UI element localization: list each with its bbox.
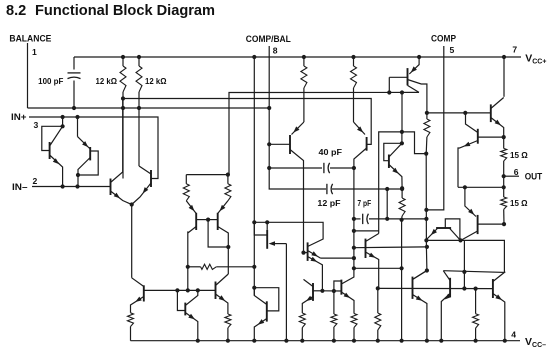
- wire base bus y288.5: [378, 287, 493, 289]
- transistor Q7 pnp left: [292, 122, 304, 135]
- wire x354 to x378 link: [354, 230, 379, 232]
- wire IN+ lead: [29, 117, 158, 179]
- wire de-emitter link y258: [321, 257, 354, 259]
- transistor Q8 pnp right: [354, 122, 366, 135]
- resistor R13: [299, 313, 305, 328]
- transistor Q17 tail source: [132, 278, 144, 287]
- wire driver base bus y290.4: [144, 289, 216, 291]
- svg-text:4: 4: [511, 330, 516, 340]
- wire Q4 collector column: [138, 108, 140, 166]
- resistor R10: [401, 188, 403, 198]
- transistor Q15 sideways pnp: [266, 230, 268, 249]
- capacitor C1 100 pF: [68, 72, 81, 74]
- svg-text:COMP: COMP: [431, 34, 456, 44]
- svg-text:VCC+: VCC+: [525, 52, 546, 65]
- resistor R14: [333, 291, 335, 314]
- svg-text:12 kΩ: 12 kΩ: [96, 77, 118, 86]
- wire spare resistor line: [188, 266, 201, 268]
- wire out mid link y187.3: [458, 186, 504, 188]
- wire bottom VCC- rail: [131, 340, 521, 342]
- capacitor C 7 pF: [362, 214, 364, 224]
- transistor Q24 sink left: [412, 277, 414, 299]
- wire base bus y112.9: [427, 112, 491, 114]
- capacitor C 12 pF: [326, 184, 328, 194]
- wire 7pF line: [354, 218, 361, 220]
- resistor 15 ohm lower: [501, 197, 507, 209]
- svg-text:5: 5: [450, 45, 455, 55]
- svg-text:12 kΩ: 12 kΩ: [145, 77, 167, 86]
- resistor R12: [225, 314, 231, 328]
- resistor R9: [426, 113, 428, 119]
- wire comp node column: [413, 154, 427, 280]
- wire bias tap y222: [254, 222, 323, 246]
- svg-text:8.2: 8.2: [6, 3, 26, 19]
- wire 40pF line: [269, 167, 322, 169]
- wire out pin 6: [504, 175, 519, 177]
- wire bias drop x254: [253, 57, 255, 296]
- resistor R15: [351, 314, 357, 328]
- wire 2nd stage loop: [379, 132, 427, 234]
- wire current limit net y240.4: [426, 240, 504, 272]
- transistor Q11 npn out top: [490, 104, 492, 122]
- transistor Q10 diode: [401, 132, 403, 143]
- wire mirror top: [186, 174, 229, 176]
- svg-text:8: 8: [273, 45, 278, 55]
- wire 12pF to 7pF drop: [386, 189, 388, 219]
- wire VCC+ pin7 drop: [503, 57, 505, 97]
- resistor R6 mirror right: [227, 175, 229, 184]
- wire node bus y98.5: [123, 99, 371, 145]
- wire 12pF line: [332, 188, 402, 190]
- transistor Q4 input: [150, 170, 152, 187]
- resistor R11: [128, 313, 134, 327]
- svg-text:IN+: IN+: [11, 112, 27, 122]
- transistor Q3 input: [110, 179, 112, 196]
- svg-text:12 pF: 12 pF: [317, 199, 340, 208]
- svg-text:2: 2: [33, 176, 38, 186]
- wire q9 c1 node drop: [401, 93, 403, 132]
- wire mirror out column: [187, 231, 189, 290]
- svg-text:VCC–: VCC–: [525, 336, 546, 349]
- junction dots: [121, 55, 125, 59]
- wire x354 column: [353, 168, 355, 268]
- svg-text:6: 6: [514, 167, 519, 177]
- wire COMP/BAL pin 8 lead: [269, 46, 326, 189]
- transistor Q1 clamp: [62, 117, 64, 126]
- transistor Q13 current limit: [436, 227, 451, 229]
- transistor Q23 2nd stage: [365, 239, 367, 258]
- wire out column: [503, 137, 505, 148]
- resistor horizontal bias: [201, 264, 217, 269]
- svg-text:OUT: OUT: [525, 172, 543, 182]
- resistor R8: [353, 57, 355, 66]
- wire balance bus y108: [28, 107, 270, 109]
- wire x401 column: [401, 220, 403, 341]
- wire BALANCE pin 1 lead: [27, 43, 29, 108]
- wire input tail: [131, 205, 133, 278]
- transistor Q16 dual emitter: [307, 242, 309, 261]
- wire top VCC+ rail: [74, 56, 521, 58]
- resistor R5 mirror left: [185, 175, 187, 184]
- transistor Q22 mid diode: [334, 281, 342, 291]
- wire Td base bus y247.3: [354, 246, 427, 249]
- wire output base branch: [463, 240, 465, 288]
- transistor Q12 npn: [478, 136, 504, 138]
- resistor 15 ohm upper: [501, 148, 507, 161]
- wire 40pF base tap: [269, 143, 290, 145]
- wire output collector link: [443, 271, 504, 282]
- svg-text:3: 3: [34, 120, 39, 130]
- resistor R2 12k right: [138, 57, 140, 66]
- svg-text:15 Ω: 15 Ω: [510, 199, 528, 208]
- svg-text:40 pF: 40 pF: [319, 148, 343, 157]
- transistor Q19 source: [215, 282, 217, 300]
- transistor Q5 mirror left: [186, 201, 196, 214]
- transistor Q25 sink right: [449, 278, 451, 298]
- wire sideways pnp collector: [266, 222, 268, 230]
- wire mirror base tie: [208, 220, 228, 247]
- wire mid base link: [322, 290, 341, 292]
- wire COMP pin 5 lead: [426, 46, 443, 210]
- svg-text:7: 7: [512, 45, 517, 55]
- transistor Q20 diode bias: [254, 288, 266, 305]
- wire IN- lead: [32, 186, 111, 188]
- transistor Q2 clamp: [77, 117, 79, 137]
- svg-text:15 Ω: 15 Ω: [510, 151, 528, 160]
- svg-text:IN–: IN–: [12, 182, 28, 192]
- resistor R7: [303, 57, 305, 66]
- capacitor C1 100 pF lead: [73, 57, 75, 70]
- svg-text:COMP/BAL: COMP/BAL: [246, 34, 291, 44]
- svg-text:Functional Block Diagram: Functional Block Diagram: [35, 3, 215, 19]
- resistor R1 12k left: [122, 57, 124, 66]
- transistor Q21 mid source left: [312, 283, 314, 301]
- resistor R16: [375, 313, 381, 330]
- svg-text:1: 1: [32, 47, 37, 57]
- resistor R17: [475, 289, 477, 314]
- svg-text:100 pF: 100 pF: [38, 77, 63, 86]
- transistor Q18 diode: [177, 290, 185, 310]
- wire diode L-link: [341, 268, 354, 284]
- svg-text:BALANCE: BALANCE: [9, 34, 51, 44]
- transistor Q9 split pnp: [409, 57, 419, 74]
- transistor Q26 output npn: [492, 279, 494, 298]
- wire mirror feed y92.5: [229, 92, 419, 174]
- transistor Q6 mirror right: [218, 201, 228, 214]
- svg-text:7 pF: 7 pF: [357, 199, 371, 208]
- capacitor 40 pF: [323, 163, 325, 173]
- transistor Q14 output pnp: [465, 187, 476, 216]
- wire y268 link: [354, 267, 402, 269]
